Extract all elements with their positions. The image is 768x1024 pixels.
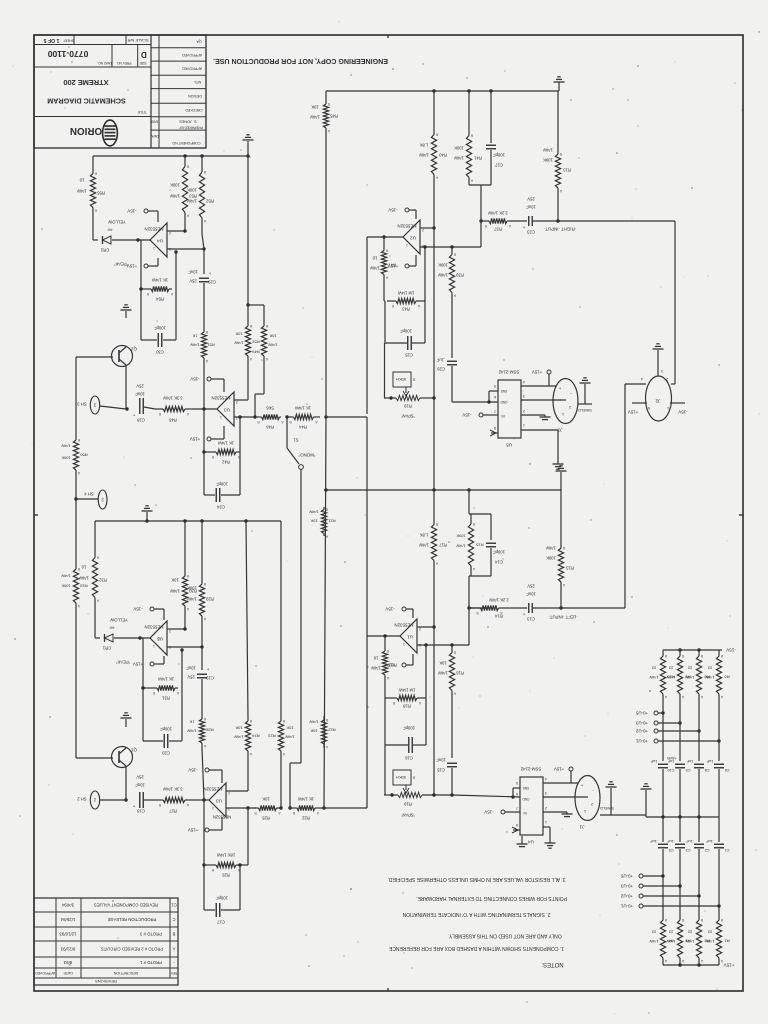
wire loop2b bottom r	[221, 909, 240, 911]
trimpot R19 bottom value	[396, 775, 406, 780]
connector J3 output	[553, 379, 578, 424]
approval table row line 6	[151, 129, 206, 131]
R2 refdes	[704, 939, 710, 944]
svg-text:-: -	[173, 960, 175, 965]
wire stub +0-U5 lower	[643, 875, 663, 877]
svg-text:+15V: +15V	[723, 963, 735, 968]
op-amp U4 led driver	[150, 223, 167, 257]
wire input line left part	[481, 220, 487, 222]
U2 plus input pin	[422, 244, 424, 248]
U3 plus input pin	[236, 416, 238, 420]
junction U4 output	[136, 238, 139, 241]
svg-text:U5: U5	[157, 637, 163, 642]
wire SH4	[76, 498, 98, 500]
frame tick top mid	[387, 35, 389, 38]
svg-text:1: 1	[220, 415, 222, 419]
title block divider vertical	[150, 35, 152, 148]
wire U1 drop join	[366, 636, 368, 808]
svg-text:J2: J2	[655, 398, 660, 404]
svg-text:"PEAK": "PEAK"	[115, 660, 130, 665]
svg-text:S: S	[412, 378, 415, 382]
title block outer box	[34, 35, 206, 148]
resistor R37 2.2K	[484, 218, 511, 228]
svg-text:A: A	[186, 412, 189, 416]
wire U4 upper input	[167, 230, 185, 232]
R40 watt label	[419, 153, 429, 158]
op-amp U6 led driver	[150, 621, 167, 655]
resistor R8 22	[696, 650, 703, 700]
revision table row line 4	[34, 967, 178, 969]
svg-text:22: 22	[668, 666, 673, 671]
power stub -15V U4ssm left label	[484, 810, 493, 815]
wire U6 lower input	[167, 646, 202, 648]
svg-text:R37: R37	[493, 227, 501, 232]
wire C25 loop left	[384, 301, 386, 343]
svg-text:+0-U1: +0-U1	[620, 904, 633, 909]
resistor R17 1.8K	[431, 522, 438, 566]
R16 refdes	[455, 671, 463, 676]
svg-text:C: C	[172, 917, 175, 922]
svg-text:A: A	[386, 676, 389, 680]
R33 refdes	[80, 584, 88, 589]
svg-text:A: A	[315, 420, 318, 424]
svg-text:A: A	[77, 604, 80, 608]
svg-text:2.2K 1/4W: 2.2K 1/4W	[489, 598, 509, 603]
J3 pin1 number	[562, 412, 564, 416]
svg-text:-15V: -15V	[385, 607, 394, 612]
rev hdr approved	[35, 971, 55, 975]
op-amp U2	[403, 220, 420, 254]
wire R32 to diode	[94, 602, 96, 638]
svg-text:100K: 100K	[61, 584, 71, 589]
wire pair bottom	[469, 184, 491, 186]
R8 cc label	[687, 666, 692, 671]
transistor Q2 bar	[118, 350, 120, 362]
trimpot R19 bottom wiper arrow	[403, 785, 409, 793]
rev c1 date	[61, 903, 74, 908]
wire rail x434 down	[433, 177, 435, 489]
junction SH4	[74, 497, 77, 500]
svg-text:R17: R17	[438, 543, 446, 548]
transistor Q1 bar	[118, 751, 120, 763]
wire rail x248b down	[246, 521, 248, 718]
C20 refdes	[161, 751, 169, 756]
svg-text:1/4W: 1/4W	[456, 544, 466, 549]
capacitor C30 100pF	[158, 333, 162, 347]
C19 polarity	[206, 667, 209, 672]
svg-text:100pF: 100pF	[493, 550, 505, 555]
svg-text:100K: 100K	[187, 586, 197, 591]
svg-text:4: 4	[545, 777, 547, 781]
svg-text:R45: R45	[329, 114, 337, 119]
wire left rail mid	[75, 478, 77, 565]
component no label	[171, 141, 200, 145]
svg-text:A: A	[249, 357, 252, 361]
resistor R22 10K	[321, 716, 328, 749]
J1 pin2 number	[591, 802, 593, 806]
R18 refdes	[402, 704, 410, 709]
svg-text:SH 2: SH 2	[77, 797, 87, 802]
R51 refdes	[207, 343, 215, 348]
svg-text:IN: IN	[523, 811, 527, 815]
wire loop left down to pot line	[384, 343, 386, 398]
svg-text:A: A	[186, 803, 189, 807]
svg-text:B: B	[146, 292, 149, 296]
svg-text:1/4W: 1/4W	[187, 199, 197, 204]
Q1 refdes	[131, 748, 137, 753]
right input net label	[544, 227, 576, 232]
svg-text:1/25/94: 1/25/94	[60, 917, 75, 922]
ground power bank	[641, 784, 652, 789]
op-amp U5 type label	[144, 625, 163, 630]
wire R13l bottom lead	[560, 600, 562, 608]
resistor R33 100K	[73, 565, 80, 608]
U3 minus input pin	[236, 400, 238, 404]
R53 watt label	[170, 194, 180, 199]
svg-text:10: 10	[372, 256, 377, 261]
wire loop1 left	[203, 409, 205, 452]
svg-text:1/4W: 1/4W	[309, 720, 319, 725]
wire R48 to U3a	[193, 408, 217, 410]
svg-text:B: B	[681, 654, 684, 658]
junction gbus 699	[697, 815, 700, 818]
C2 refdes	[705, 848, 710, 852]
svg-text:1/4W: 1/4W	[649, 675, 658, 679]
svg-text:B: B	[203, 582, 206, 586]
junction upper input R30	[183, 627, 186, 630]
svg-text:SHIELD: SHIELD	[600, 806, 614, 810]
wire R52 bottom	[202, 234, 204, 249]
svg-text:B: B	[386, 649, 389, 653]
power stub -15V U1 top label	[385, 607, 394, 612]
C26 refdes	[436, 367, 444, 372]
R19 bottom refdes	[403, 802, 411, 807]
junction lower input x452 left	[450, 643, 453, 646]
SH2 label	[77, 797, 87, 802]
svg-text:100K: 100K	[546, 556, 556, 561]
C17 refdes	[216, 920, 224, 925]
R13r value label	[543, 158, 553, 163]
checked label	[185, 108, 203, 112]
wire u6loop2 right	[181, 688, 183, 741]
svg-text:10K: 10K	[310, 519, 317, 524]
power stub +15V U4 label	[127, 264, 137, 269]
wire C10 to gnd bus	[662, 769, 664, 817]
wire R52a top lead	[247, 305, 249, 324]
terminator stub +0-U5 lower label	[620, 874, 633, 879]
R28 refdes	[206, 728, 214, 733]
wire rail x434 lower	[433, 563, 435, 795]
wire gnd stem to mid bus	[560, 472, 562, 490]
svg-text:A: A	[77, 471, 80, 475]
svg-text:22: 22	[668, 930, 673, 935]
svg-text:10K: 10K	[235, 332, 242, 337]
svg-text:+: +	[208, 271, 211, 276]
U5 pin name in	[501, 414, 505, 418]
wire bbus corner x281	[280, 521, 282, 718]
wire SH2 to C18	[100, 799, 126, 801]
wire right input drop to J2	[674, 221, 676, 384]
capacitor C26 .1uF	[447, 361, 457, 365]
power stub -15V U3a label	[190, 377, 199, 382]
approval table row line 2	[151, 74, 206, 76]
SH3 number	[93, 403, 96, 408]
C29 value label	[188, 270, 198, 275]
svg-text:MTL: MTL	[194, 80, 201, 84]
svg-text:R21: R21	[328, 519, 336, 524]
power stub -15V U4	[144, 209, 148, 213]
svg-text:+: +	[580, 783, 583, 788]
svg-text:10uF: 10uF	[188, 270, 198, 275]
U4ssm pin1 number	[545, 820, 547, 824]
svg-text:1 OF 5: 1 OF 5	[43, 37, 59, 43]
R19 bottom span label	[400, 813, 415, 818]
wire u6loop2 left	[142, 688, 144, 741]
R26 value label	[217, 853, 235, 858]
sheet connector SH4 circle	[98, 490, 107, 509]
svg-text:+0-U5: +0-U5	[620, 874, 633, 879]
svg-text:100K: 100K	[170, 183, 180, 188]
wire loop1 right	[239, 417, 241, 452]
svg-text:C26: C26	[436, 367, 444, 372]
U1 output pin	[403, 642, 405, 646]
terminator stub +0-U1 upper label	[635, 739, 648, 744]
svg-text:10: 10	[373, 656, 378, 661]
R45 value label	[311, 105, 319, 110]
svg-text:B: B	[205, 330, 208, 334]
wire loop1b bottom r	[240, 864, 248, 866]
wire bbus corner down x95	[94, 521, 96, 553]
wire -15V bus	[663, 649, 722, 651]
svg-text:5: 5	[648, 406, 650, 410]
junction SH3 wire	[125, 407, 128, 410]
revision table row line 1	[34, 926, 178, 928]
approval table row line 0	[151, 47, 206, 49]
svg-text:1/4W: 1/4W	[666, 939, 675, 943]
svg-text:SIZE: SIZE	[139, 61, 146, 65]
svg-text:A: A	[316, 811, 319, 815]
svg-text:A: A	[417, 304, 420, 308]
power stub -15V U6	[150, 607, 154, 611]
mtl label	[194, 80, 201, 84]
junction -15v bus r8	[697, 648, 700, 651]
svg-text:1: 1	[406, 243, 408, 247]
svg-text:22: 22	[687, 666, 692, 671]
wire rail x452 mid	[451, 300, 453, 358]
svg-text:ENGINEERING COPY, NOT FOR PROD: ENGINEERING COPY, NOT FOR PRODUCTION USE…	[213, 57, 388, 65]
resistor R26 18K feedback	[211, 862, 240, 872]
resistor R48 3.3K	[155, 406, 193, 416]
rev c desc	[107, 917, 156, 922]
svg-text:C1: C1	[171, 903, 177, 908]
U5 pin2 number	[523, 409, 525, 413]
C18 value label	[135, 783, 145, 788]
ground below U5 cluster	[553, 464, 564, 469]
J1 shield label	[600, 806, 614, 810]
svg-text:COMPONENT NO.: COMPONENT NO.	[171, 141, 200, 145]
wire lower line to U1 drop	[322, 807, 367, 809]
svg-text:25V: 25V	[527, 584, 535, 589]
svg-text:1: 1	[562, 412, 564, 416]
junction rail x434 upper input	[432, 625, 435, 628]
wire U5 sense pin	[489, 390, 498, 392]
wire stub +0-U3 upper	[658, 722, 680, 724]
wire U4ssm pin7	[505, 811, 520, 813]
svg-text:3: 3	[545, 791, 547, 795]
C13 25V label	[527, 584, 535, 589]
svg-text:100pF: 100pF	[493, 153, 505, 158]
wire R55 to diode	[92, 210, 94, 240]
svg-text:22: 22	[651, 930, 656, 935]
rev dash date	[63, 960, 72, 965]
svg-text:100pF: 100pF	[400, 329, 412, 334]
wire pairL top	[469, 513, 491, 515]
svg-text:B: B	[700, 654, 703, 658]
wire R49b top lead	[263, 305, 265, 324]
svg-text:1/4W: 1/4W	[438, 671, 448, 676]
svg-text:100K: 100K	[187, 188, 197, 193]
wire R29 bottom	[201, 620, 203, 647]
svg-text:1/4W: 1/4W	[190, 343, 200, 348]
svg-text:R43: R43	[401, 307, 409, 312]
capacitor C1 .1uF	[714, 844, 724, 848]
svg-text:C5: C5	[669, 848, 674, 852]
wire U6 stub top v	[163, 609, 165, 620]
wire stub +0-U1 upper	[658, 740, 719, 742]
wire U6 stub top	[154, 608, 164, 610]
wire U5 pin2 out	[521, 414, 545, 416]
svg-text:1/4W: 1/4W	[371, 666, 381, 671]
svg-text:SHEET: SHEET	[63, 38, 74, 42]
R46 value label	[266, 406, 274, 411]
wire u6loop bottom l	[143, 687, 154, 689]
R27 value label	[163, 787, 183, 792]
capacitor C6 1uF	[714, 764, 724, 768]
junction stub +0-U1 lower	[717, 904, 720, 907]
junction pairA top	[246, 303, 249, 306]
U4 refdes	[157, 239, 163, 244]
svg-text:R14: R14	[494, 614, 502, 619]
R53 value label	[170, 183, 180, 188]
op-amp U3 type label	[211, 396, 230, 401]
svg-text:3: 3	[93, 403, 96, 408]
wire U4 lower input	[167, 248, 204, 250]
U5 pin8 number	[494, 426, 496, 430]
svg-text:B: B	[700, 918, 703, 922]
wire R51 down to output node	[203, 360, 205, 409]
R14 refdes	[494, 614, 502, 619]
wire gnd stem q1	[125, 719, 127, 727]
wire left input line b	[533, 607, 625, 609]
J2 pin5 number	[648, 406, 650, 410]
ground near Q2	[121, 305, 132, 310]
svg-text:DWG NO.: DWG NO.	[97, 61, 111, 65]
junction loop lower input	[423, 245, 426, 248]
C18 refdes	[136, 809, 144, 814]
svg-text:1/4W: 1/4W	[170, 194, 180, 199]
junction bbus R30	[183, 519, 186, 522]
svg-text:2: 2	[93, 798, 96, 803]
wire loop2 bottom l	[204, 494, 215, 496]
R4 cc label	[651, 930, 656, 935]
C25 refdes	[404, 353, 412, 358]
wire pot line b	[420, 397, 434, 399]
C17 value label	[216, 896, 228, 901]
svg-text:SH 3: SH 3	[77, 402, 87, 407]
mono switch s1 label	[293, 438, 299, 443]
svg-text:8: 8	[516, 823, 518, 827]
svg-text:S1: S1	[293, 438, 299, 443]
wire C18 to R27	[144, 799, 155, 801]
wire bus corner down x93	[92, 156, 94, 171]
svg-text:Q2: Q2	[131, 347, 137, 352]
U4 output pin	[153, 246, 155, 250]
wire stub U1 bot	[406, 664, 413, 666]
svg-text:ORION: ORION	[70, 125, 102, 136]
svg-text:SSM-2142: SSM-2142	[520, 767, 541, 772]
svg-text:A: A	[453, 692, 456, 696]
CR2 yellow label	[108, 220, 126, 225]
svg-text:IN: IN	[501, 414, 505, 418]
C24 refdes	[216, 505, 224, 510]
junction U3b output loop	[202, 798, 205, 801]
wire mono rail jog	[290, 762, 301, 764]
R44 value label	[295, 406, 311, 411]
svg-text:B: B	[559, 152, 562, 156]
wire U3b lower input	[226, 807, 256, 809]
svg-text:B: B	[186, 165, 189, 169]
U3 refdes	[216, 799, 222, 804]
R15 refdes	[476, 543, 484, 548]
wire R40 top lead	[433, 91, 435, 132]
junction rail R40 upper input	[432, 226, 435, 229]
wire U2 upper input	[420, 227, 434, 229]
resistor R23b 10K	[278, 718, 285, 756]
svg-text:10: 10	[79, 178, 84, 183]
R9 refdes	[685, 675, 691, 680]
power stub +15V U5	[547, 370, 551, 374]
wire U4ssm sense up	[512, 788, 514, 797]
U3 plus input pin	[228, 807, 230, 811]
svg-text:NE5532N: NE5532N	[211, 396, 230, 401]
R47 refdes	[387, 263, 395, 268]
svg-text:1/4W: 1/4W	[454, 156, 464, 161]
ground aux near U4ssm	[517, 844, 528, 847]
resistor R9 22	[677, 650, 684, 700]
junction U4ssm sense	[511, 795, 514, 798]
wire R43 loop left	[384, 300, 385, 302]
wire loop1 bottom l	[204, 451, 212, 453]
wire R24b to upper input corner	[247, 754, 249, 791]
U5 pin6 number	[494, 395, 496, 399]
svg-text:5: 5	[516, 781, 518, 785]
SH3 label	[77, 402, 87, 407]
svg-text:A: A	[203, 617, 206, 621]
R22 refdes	[328, 728, 336, 733]
SH4 number	[101, 498, 104, 503]
resistor R14 2.2K	[469, 605, 510, 615]
svg-text:1uF: 1uF	[706, 759, 713, 763]
R32 watt label	[79, 576, 89, 581]
R53 refdes	[188, 194, 196, 199]
resistor R49 10K b	[261, 324, 268, 361]
-15V bank label	[725, 648, 736, 653]
trimpot R19 top s pin	[412, 378, 415, 382]
svg-text:.1uF: .1uF	[650, 839, 658, 843]
svg-text:"SPAN": "SPAN"	[400, 414, 415, 419]
resistor R1 22	[716, 913, 723, 965]
resistor R6 22	[716, 650, 723, 700]
